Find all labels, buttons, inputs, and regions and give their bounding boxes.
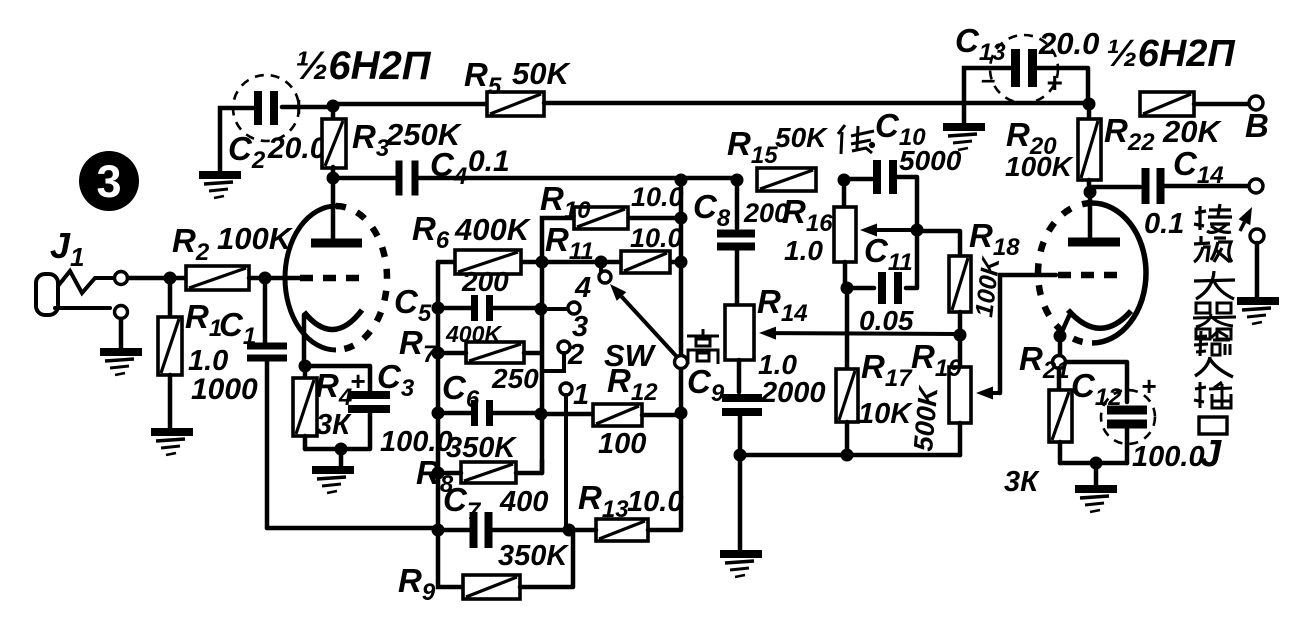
ground under R1 (151, 432, 193, 455)
wire tip to R2 (128, 276, 186, 281)
jack sleeve contact circle (115, 306, 128, 319)
label R15 50K (727, 122, 828, 169)
label Chinese cha (insert) (1194, 382, 1232, 408)
R16 wiper arrow (877, 228, 915, 232)
resistor R13 (569, 413, 681, 541)
wire C6 row to R12 (541, 412, 593, 417)
label R14 1.0 (757, 283, 808, 380)
svg-text:0.1: 0.1 (1144, 208, 1184, 240)
wire tone left bus (436, 262, 441, 530)
switch SW common (675, 356, 688, 369)
label Chinese da (big) (1194, 271, 1235, 299)
resistor R21 (1049, 368, 1072, 463)
capacitor C11 0.05 (847, 230, 917, 304)
node C7 left (432, 524, 445, 537)
node R16 wiper junction (911, 224, 924, 237)
svg-text:10K: 10K (858, 398, 913, 430)
svg-text:3К: 3К (316, 409, 352, 441)
svg-text:0.1: 0.1 (468, 145, 510, 178)
ground under C12 (1075, 489, 1117, 512)
label R2 100K (172, 221, 294, 266)
wire R10 branch (542, 218, 681, 262)
wire R21 C12 bottom (1060, 461, 1127, 466)
svg-text:0.05: 0.05 (859, 305, 914, 336)
capacitor C4 0.1 (396, 161, 403, 196)
ground under jack (100, 352, 142, 375)
wire R19 wiper to V2 grid (1000, 275, 1056, 393)
label R7 400K (399, 321, 502, 368)
resistor R17 (836, 288, 858, 455)
resistor R15 (757, 168, 816, 191)
label R1 1.0 (185, 298, 228, 377)
node C5 left (432, 302, 445, 315)
node R8 left (432, 467, 445, 480)
label Chinese qi (device) (1193, 303, 1236, 339)
wire R12 right (642, 413, 681, 418)
svg-text:3К: 3К (1004, 466, 1040, 498)
V1 cathode (304, 310, 362, 366)
resistor R20 (1078, 104, 1101, 192)
svg-text:SW: SW (604, 338, 657, 373)
svg-text:+: + (1141, 371, 1156, 401)
svg-text:100K: 100K (217, 221, 294, 256)
triode V1 envelope (285, 206, 387, 350)
svg-text:400K: 400K (454, 212, 532, 247)
wire bottom row R17 R19 (740, 453, 960, 458)
ground mid network (720, 554, 762, 577)
output ground terminal (1250, 229, 1264, 298)
wire supply line R5 to node A (544, 101, 1089, 106)
ground under C13 crossing (943, 127, 985, 150)
capacitor C12 (electrolytic 100.0) (1066, 362, 1156, 463)
node A supply (1083, 98, 1096, 111)
label Chinese shu (transport) (1194, 331, 1230, 356)
figure number badge 3 (79, 151, 139, 211)
svg-text:1.0: 1.0 (758, 349, 797, 380)
node tone top right (675, 174, 688, 187)
label Chinese ru (enter) (1195, 357, 1233, 377)
label C4 0.1 (430, 145, 510, 190)
svg-text:+: + (1046, 67, 1062, 98)
svg-text:–: – (981, 64, 995, 94)
label R9 350K (398, 540, 569, 606)
svg-text:100.0: 100.0 (1132, 441, 1205, 473)
svg-text:½6Н2П: ½6Н2П (1106, 33, 1235, 75)
svg-text:½6Н2П: ½6Н2П (295, 44, 432, 88)
wire top supply line (333, 102, 488, 107)
capacitor C3 100.0 (305, 366, 390, 449)
potentiometer R19 (949, 335, 971, 455)
label R18 100K (969, 217, 1020, 319)
resistor R1 (158, 278, 182, 428)
resistor R5 (487, 92, 544, 116)
terminal B (1245, 96, 1269, 144)
svg-text:250: 250 (491, 363, 539, 394)
wire C2 to node B2 (282, 105, 327, 110)
potentiometer R14 (725, 305, 754, 360)
svg-text:4: 4 (574, 272, 591, 304)
label R13 10.0 (578, 479, 683, 523)
node R17 bottom (841, 449, 854, 462)
svg-text:B: B (1245, 107, 1269, 144)
label C13 20.0 (955, 22, 1099, 66)
svg-text:5000: 5000 (899, 145, 962, 176)
svg-text:20K: 20K (1162, 114, 1222, 149)
V1 plate (311, 178, 362, 243)
label R4 3K (315, 366, 365, 441)
node C6 right / bus (535, 408, 548, 421)
svg-text:1000: 1000 (191, 373, 258, 406)
resistor R22 (1140, 92, 1249, 116)
capacitor C5 200 (438, 295, 541, 321)
svg-text:2: 2 (567, 339, 584, 371)
node R18 bottom (954, 329, 967, 342)
svg-text:10.0: 10.0 (630, 223, 683, 253)
switch contact 1 (560, 383, 572, 528)
resistor R18 (917, 231, 971, 335)
node R12 right (675, 407, 688, 420)
V2 grid (1058, 272, 1124, 279)
node ground V2 cathode (1090, 457, 1103, 470)
capacitor C2 (electrolytic 20.0) (233, 75, 306, 141)
label C7 400 (443, 481, 548, 525)
label R8 350K (416, 432, 517, 498)
ground under R4 C3 (312, 470, 354, 493)
label R6 400K (412, 210, 532, 254)
resistor R10 (574, 207, 628, 229)
svg-text:1.0: 1.0 (784, 235, 823, 266)
wire plate line to C4 (333, 176, 396, 181)
triode V2 envelope (1038, 203, 1146, 343)
resistor R6 (455, 250, 521, 274)
capacitor C1 1000 (247, 284, 287, 528)
label C1 1000 (191, 306, 258, 406)
node C6 left (432, 407, 445, 420)
wire to ground stub (339, 449, 344, 466)
node R15 right (838, 174, 851, 187)
node grid V1 (259, 272, 272, 285)
capacitor C8 200 (717, 180, 755, 305)
node C9 bottom (734, 449, 747, 462)
label R12 100 (598, 362, 658, 460)
wire R6 row (438, 260, 681, 265)
label C3 100.0 (377, 358, 453, 458)
resistor R7 (438, 342, 541, 363)
switch contact 3 (548, 302, 580, 314)
label C2 20.0 (228, 130, 327, 174)
resistor R2 (186, 266, 249, 290)
node input junction (164, 272, 177, 285)
resistor R8 (438, 460, 542, 483)
node cathode V1 (299, 360, 312, 373)
svg-text:100K: 100K (1005, 151, 1074, 182)
wire C2 left to ground (220, 108, 258, 172)
svg-text:50K: 50K (512, 56, 571, 91)
node plate V1a (327, 172, 340, 185)
svg-text:400K: 400K (445, 321, 502, 347)
node R11 left (595, 256, 608, 269)
R19 wiper arrow (993, 391, 1000, 395)
switch SW arm arrow (622, 297, 679, 359)
node C8 top (731, 174, 744, 187)
wire C4 to tone network top (419, 176, 737, 181)
label hi (Chinese gao) (687, 329, 719, 364)
label C12 100.0 (1071, 367, 1205, 473)
resistor R9 350K (438, 530, 573, 599)
node R4 C3 bottom (335, 443, 348, 456)
V2 plate (1068, 192, 1120, 242)
label C11 0.05 (859, 232, 914, 336)
switch contact 2 (543, 341, 570, 371)
capacitor C6 250 (438, 400, 541, 426)
label Chinese fang (put) (1194, 236, 1232, 262)
node R7 left (432, 347, 445, 360)
label Chinese jie (connect) (1194, 204, 1232, 232)
svg-text:350K: 350K (446, 432, 517, 464)
label R17 10K 2000 (760, 348, 913, 430)
cathode pin circle (1053, 356, 1066, 369)
node B2 junction (327, 100, 340, 113)
wire C1 bottom to tone network (267, 526, 438, 531)
wire sleeve to ground (119, 319, 124, 348)
svg-text:100: 100 (598, 428, 646, 460)
svg-text:200: 200 (461, 266, 509, 297)
resistor R11 (621, 251, 670, 273)
wire ground stub mid (738, 455, 743, 551)
node R10 right (675, 212, 688, 225)
label R5 50K (464, 56, 571, 100)
node R11 right (675, 256, 688, 269)
V2 cathode (1060, 310, 1131, 356)
resistor R12 (593, 404, 642, 426)
label R16 1.0 (782, 193, 833, 266)
svg-text:20.0: 20.0 (267, 132, 327, 165)
svg-text:20.0: 20.0 (1038, 26, 1099, 61)
node C11 left (841, 282, 854, 295)
ground output jack (1237, 301, 1279, 324)
wire cathode ground stub (1094, 463, 1099, 485)
svg-text:J: J (1200, 433, 1222, 475)
switch contact 4 (599, 262, 611, 283)
svg-text:1: 1 (573, 379, 589, 411)
label Chinese kou (mouth) (1199, 417, 1227, 434)
label R22 20K (1104, 112, 1222, 156)
label R20 100K (1005, 116, 1074, 182)
label C14 0.1 (1144, 145, 1224, 240)
node C7 right (563, 524, 576, 537)
resistor R3 (322, 107, 346, 179)
svg-text:500K: 500K (908, 383, 944, 452)
V1 grid (300, 275, 368, 282)
wire tone right bus (679, 180, 684, 413)
wire R2 to grid node (249, 276, 300, 281)
capacitor C7 400 (438, 512, 569, 548)
label R19 500K (908, 338, 962, 453)
wire switch bus x540 (540, 262, 545, 473)
jack tip contact circle (115, 272, 128, 285)
capacitor C10 5000 (844, 160, 917, 230)
label low (Chinese di) (838, 125, 874, 154)
label R21 3K (1004, 340, 1070, 498)
label C8 200 (693, 188, 789, 232)
capacitor C14 0.1 (1090, 168, 1248, 204)
capacitor C13 (electrolytic 20.0) (964, 35, 1088, 124)
input jack J1 (36, 271, 114, 315)
node C5 right / bus (535, 303, 548, 316)
svg-text:50K: 50K (775, 122, 828, 153)
svg-text:3: 3 (96, 156, 121, 207)
output arrow (1240, 222, 1244, 231)
label C10 5000 (875, 107, 962, 176)
R14 wiper arrow (776, 331, 958, 336)
svg-text:10.0: 10.0 (627, 486, 683, 518)
svg-text:350K: 350K (498, 540, 569, 572)
node R10 bus tap (536, 256, 549, 269)
ground under C2 (199, 175, 241, 198)
label R3 250K (352, 117, 463, 162)
node cathode V2 (1054, 330, 1067, 343)
terminal output (1249, 179, 1263, 193)
resistor R4 (293, 366, 317, 449)
node V2 plate (1084, 186, 1097, 199)
capacitor C9 2000 (722, 360, 762, 455)
potentiometer R16 (834, 180, 856, 288)
svg-text:2000: 2000 (760, 377, 826, 409)
svg-text:400: 400 (499, 486, 548, 518)
svg-text:10.0: 10.0 (631, 182, 684, 212)
